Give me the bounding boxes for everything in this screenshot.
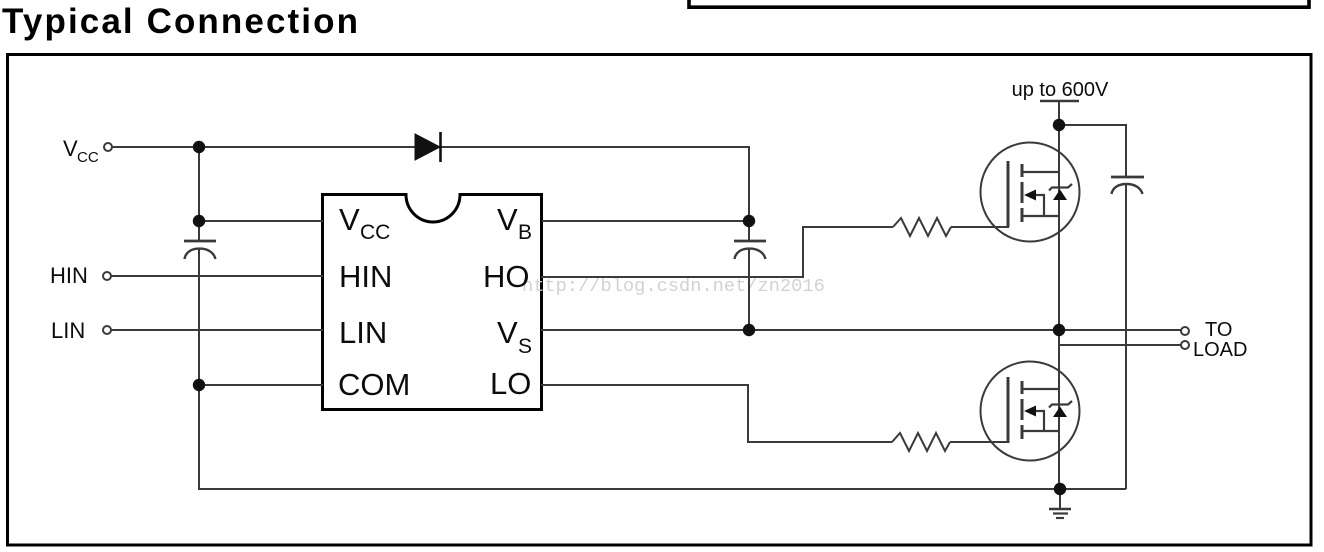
- node: VCC / decoupling tap: [193, 141, 205, 153]
- node: VS / bootstrap bottom: [743, 324, 755, 336]
- svg-text:HO: HO: [483, 259, 530, 294]
- svg-text:TO: TO: [1205, 319, 1232, 341]
- wire: HIN input: [111, 275, 323, 277]
- wire: lower resistor to gate: [950, 441, 1009, 443]
- node: VS / half-bridge midpoint: [1053, 324, 1065, 336]
- svg-text:up to 600V: up to 600V: [1012, 79, 1109, 101]
- node: COM tap: [193, 379, 205, 391]
- wire: bootstrap cap bottom lead: [748, 248, 750, 330]
- svg-text:B: B: [518, 221, 532, 244]
- wire: upper resistor to gate: [951, 226, 1009, 228]
- svg-text:HIN: HIN: [50, 263, 88, 288]
- wire: left decoupling branch lower + bottom COM rail: [199, 248, 1126, 489]
- svg-text:V: V: [339, 202, 360, 237]
- input terminal HIN: [103, 272, 111, 280]
- 600V supply bar: [1040, 100, 1079, 103]
- svg-text:CC: CC: [360, 221, 390, 244]
- svg-text:http://blog.csdn.net/zn2016: http://blog.csdn.net/zn2016: [522, 275, 825, 297]
- output terminal TO: [1181, 327, 1189, 335]
- wire: upper MOSFET drain-source rail: [1058, 125, 1060, 330]
- output terminal LOAD: [1181, 341, 1189, 349]
- ground: [1049, 509, 1071, 518]
- wire: COM pin stub: [199, 384, 323, 386]
- wire: VS line to TO terminal: [541, 329, 1181, 331]
- wire: VB pin to bootstrap node: [542, 220, 749, 222]
- capacitor C2 (bootstrap): [734, 241, 766, 259]
- wire: VCC pin stub: [199, 220, 323, 222]
- wire: 600V stub: [1058, 101, 1060, 125]
- input terminal VCC: [104, 143, 112, 151]
- wire: bus cap bottom lead: [1125, 184, 1127, 489]
- node: VB / bootstrap: [743, 215, 755, 227]
- transistor Q1 (upper MOSFET): [981, 143, 1080, 242]
- wire: load branch to LOAD terminal: [1059, 344, 1181, 346]
- svg-text:Typical Connection: Typical Connection: [2, 2, 358, 41]
- wire: VCC input rail to bootstrap corner: [112, 147, 749, 241]
- wire: ground stub: [1059, 489, 1061, 509]
- svg-text:CC: CC: [77, 149, 99, 166]
- op-amp-driver IC U1 body: [323, 195, 542, 410]
- transistor Q2 (lower MOSFET): [981, 362, 1080, 461]
- wire: LO to lower gate resistor: [541, 385, 892, 442]
- wire: LIN input: [111, 329, 323, 331]
- capacitor C1 (VCC decoupling): [184, 241, 216, 259]
- svg-text:LOAD: LOAD: [1193, 339, 1247, 361]
- wire: left decoupling branch upper: [198, 147, 200, 241]
- diode D1 (bootstrap): [415, 132, 441, 162]
- wire: HO to upper gate resistor: [541, 227, 893, 277]
- svg-text:LIN: LIN: [339, 315, 387, 350]
- node: ground rail: [1054, 483, 1066, 495]
- svg-text:LO: LO: [490, 366, 531, 401]
- wire: lower MOSFET drain-source rail: [1058, 330, 1060, 489]
- wire: top node to bus cap: [1059, 125, 1126, 176]
- top frame (bottom edge of previous figure box): [689, 0, 1309, 7]
- svg-text:HIN: HIN: [339, 259, 392, 294]
- input terminal LIN: [103, 326, 111, 334]
- resistor R1 (upper gate): [893, 218, 951, 236]
- svg-text:S: S: [518, 335, 532, 358]
- svg-text:V: V: [497, 315, 518, 350]
- svg-text:LIN: LIN: [51, 318, 85, 343]
- resistor R2 (lower gate): [892, 433, 950, 451]
- node: 600V bus top: [1053, 119, 1065, 131]
- svg-text:COM: COM: [338, 367, 410, 402]
- svg-text:V: V: [497, 202, 518, 237]
- capacitor C3 (bus): [1111, 177, 1144, 194]
- node: VCC pin tap: [193, 215, 205, 227]
- svg-text:V: V: [63, 136, 78, 161]
